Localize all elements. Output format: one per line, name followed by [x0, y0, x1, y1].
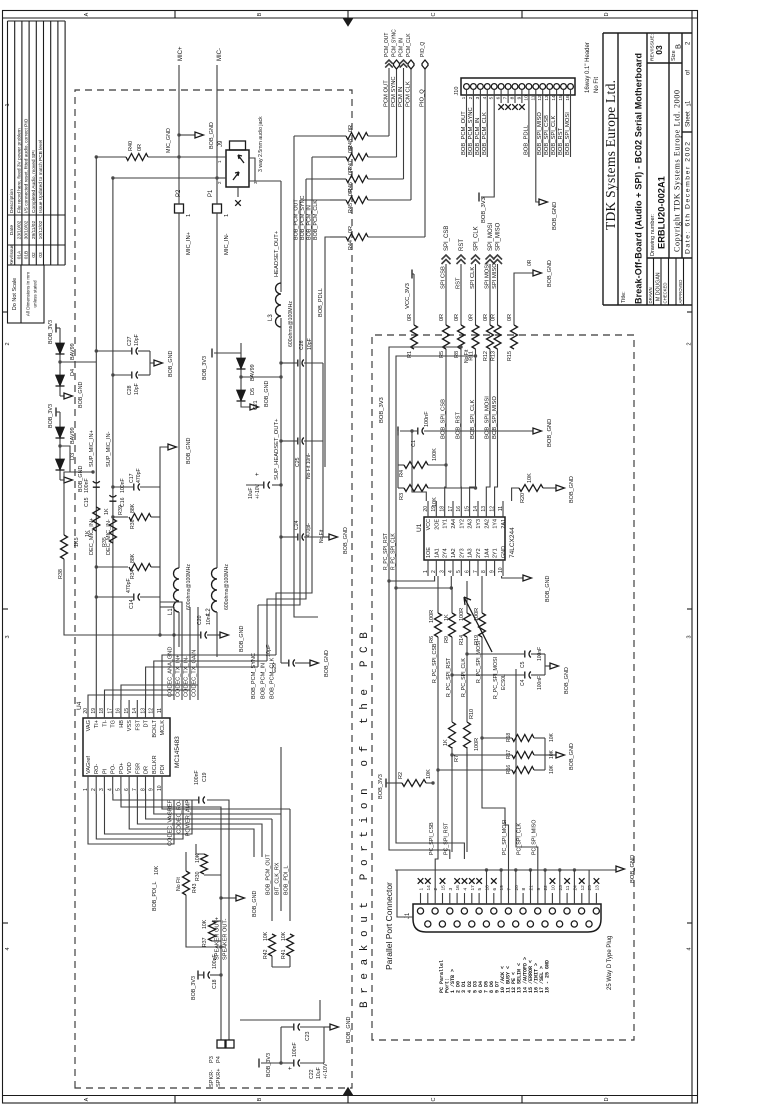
capacitor C21 10uF [279, 483, 282, 486]
resistor R12 0R [487, 325, 494, 349]
svg-text:13: 13 [140, 708, 146, 714]
off-page connector SPI_MOSI [489, 264, 491, 325]
svg-text:12: 12 [537, 95, 543, 101]
resistor R37 10K [212, 940, 221, 942]
svg-text:R41: R41 [281, 949, 287, 959]
diode D5 BAV99 [240, 343, 242, 401]
svg-text:P1: P1 [208, 189, 214, 197]
svg-text:BOB_PCM_IN: BOB_PCM_IN [475, 118, 481, 155]
svg-text:2A4: 2A4 [451, 519, 457, 529]
svg-text:BAV99: BAV99 [70, 343, 76, 360]
svg-text:BOB_GND: BOB_GND [569, 476, 575, 503]
svg-text:C22: C22 [309, 1069, 315, 1079]
resistor R15 0R [511, 325, 518, 349]
capacitor C18 100nF [197, 971, 199, 980]
svg-text:MCLK: MCLK [160, 720, 166, 736]
svg-text:8: 8 [521, 888, 527, 891]
svg-text:POWER_AMP: POWER_AMP [186, 800, 192, 837]
zone number ticks [3, 922, 9, 924]
C4 C5 rail [544, 654, 546, 675]
svg-text:PCM_IN: PCM_IN [399, 38, 405, 57]
J1 ground rail [395, 869, 616, 871]
svg-text:10: 10 [550, 885, 556, 891]
svg-text:J1: J1 [405, 912, 411, 919]
svg-text:8: 8 [510, 96, 516, 99]
svg-text:C27: C27 [127, 336, 133, 346]
codec right comb [88, 695, 174, 700]
svg-text:BAV99: BAV99 [250, 364, 256, 381]
svg-text:BOB_SPI_CSB: BOB_SPI_CSB [441, 399, 447, 439]
svg-text:17: 17 [107, 708, 113, 714]
svg-text:21: 21 [528, 885, 534, 891]
svg-text:PC_SPI_MISO: PC_SPI_MISO [532, 820, 538, 855]
svg-text:7: 7 [132, 788, 138, 791]
svg-text:2: 2 [687, 342, 693, 345]
svg-text:0R: 0R [348, 125, 354, 132]
svg-text:25: 25 [587, 885, 593, 891]
svg-text:100nF: 100nF [292, 1042, 298, 1057]
svg-text:100nF: 100nF [424, 411, 430, 427]
svg-text:BOB_PCM_CLK: BOB_PCM_CLK [313, 200, 319, 240]
label CODEC_TX_IN- [189, 607, 191, 700]
svg-text:R19: R19 [474, 635, 480, 645]
power BOB_3V3 at C1 [397, 427, 399, 436]
svg-text:DT: DT [144, 719, 150, 727]
svg-text:PIO_Q: PIO_Q [420, 89, 426, 107]
svg-text:BOB_GND: BOB_GND [552, 202, 558, 230]
wire net BOB_SPI_MISO [495, 349, 498, 501]
svg-text:2A3: 2A3 [468, 519, 474, 529]
svg-text:R18: R18 [506, 733, 512, 742]
svg-text:9: 9 [516, 96, 522, 99]
svg-text:J10: J10 [454, 87, 460, 96]
capacitor C15 100nF [93, 481, 100, 487]
svg-text:88K: 88K [130, 553, 136, 563]
capacitor C29 10pF [281, 662, 288, 664]
svg-text:PIO_Q: PIO_Q [420, 42, 426, 57]
svg-text:VCC_3V3: VCC_3V3 [405, 283, 411, 309]
svg-text:C: C [431, 1097, 437, 1101]
speaker wire PO+ [121, 794, 221, 1041]
svg-text:R44: R44 [348, 240, 354, 250]
resistor R43 10K No Fit [183, 871, 190, 895]
svg-text:1A3: 1A3 [468, 548, 474, 558]
svg-text:2: 2 [686, 41, 692, 45]
svg-text:RST: RST [456, 277, 462, 289]
svg-text:BOB_GND: BOB_GND [547, 419, 553, 447]
resistor R19 100R [479, 613, 486, 637]
svg-text:R42: R42 [263, 949, 269, 959]
VCC_3V3 power tap [413, 274, 415, 325]
svg-text:BOB_3V3: BOB_3V3 [266, 1053, 272, 1077]
svg-text:BOB_PDLL: BOB_PDLL [523, 124, 529, 155]
svg-text:15: 15 [464, 506, 470, 512]
svg-text:20: 20 [514, 885, 520, 891]
svg-text:10: 10 [157, 785, 163, 791]
svg-text:3: 3 [448, 888, 454, 891]
svg-text:PO+: PO+ [119, 763, 125, 774]
svg-text:0R: 0R [348, 189, 354, 196]
svg-text:BOB_GND: BOB_GND [569, 743, 575, 770]
svg-text:6: 6 [464, 570, 470, 573]
svg-text:R4: R4 [399, 470, 405, 477]
svg-text:VAGref: VAGref [86, 756, 92, 774]
svg-text:BOB_RST: BOB_RST [558, 127, 564, 155]
svg-text:BOB_PCM_CLK: BOB_PCM_CLK [270, 657, 276, 699]
svg-text:BOB_GND: BOB_GND [564, 667, 570, 694]
svg-text:10K: 10K [527, 473, 533, 483]
svg-text:RO-: RO- [94, 764, 100, 774]
svg-text:BIT_CLK_RX: BIT_CLK_RX [275, 862, 281, 895]
svg-text:11: 11 [498, 506, 504, 511]
svg-text:1: 1 [423, 570, 429, 573]
svg-text:6: 6 [496, 96, 502, 99]
resistor R42 10K [269, 934, 276, 956]
svg-text:1Y4: 1Y4 [493, 519, 499, 529]
svg-text:R_PC_SPI_RST: R_PC_SPI_RST [383, 533, 389, 570]
svg-text:SUP_HEADSET_OUT+: SUP_HEADSET_OUT+ [274, 418, 280, 480]
svg-text:R9: R9 [444, 636, 450, 643]
svg-text:15: 15 [558, 95, 564, 101]
svg-text:1Y1: 1Y1 [443, 519, 449, 529]
svg-text:100nF: 100nF [212, 954, 218, 969]
J10 pcm pin wires [466, 103, 468, 157]
svg-text:PCM CLK: PCM CLK [406, 81, 412, 107]
svg-text:PCM IN: PCM IN [398, 87, 404, 107]
label CODEC_RO- [96, 794, 183, 839]
codec pcm wires [146, 667, 258, 700]
resistor R8 0R [458, 325, 465, 349]
capacitor C1 100nF [400, 430, 417, 432]
svg-text:3: 3 [439, 570, 445, 573]
svg-text:BOB_SPI_MOSI: BOB_SPI_MOSI [485, 396, 491, 439]
svg-text:BOB_GND: BOB_GND [168, 351, 174, 377]
audio jack J9 [226, 150, 249, 187]
svg-text:3: 3 [687, 635, 693, 638]
svg-text:19: 19 [91, 708, 97, 714]
svg-text:TG: TG [111, 720, 117, 728]
svg-text:APPROVED: APPROVED [678, 280, 683, 304]
wire net R_PC_SPI_CSB [437, 637, 439, 852]
svg-text:11: 11 [157, 708, 163, 713]
label BOB_PCM_IN [266, 605, 268, 661]
svg-text:100nF: 100nF [120, 478, 126, 493]
diode D4 BAV99 [59, 328, 61, 396]
C22 C23 rails [280, 1027, 282, 1063]
svg-text:Copyright TDK Systems Europe L: Copyright TDK Systems Europe Ltd. 2000 [673, 90, 682, 252]
revision table grid [7, 21, 9, 265]
resistor R13 0R [494, 325, 501, 349]
resistor R5 0R [443, 325, 450, 349]
ground at codec mid [219, 896, 222, 899]
svg-text:+: + [255, 472, 261, 476]
svg-text:22: 22 [543, 885, 549, 891]
power BOB_3V3 at C22 [261, 1062, 281, 1064]
svg-text:8: 8 [481, 570, 487, 573]
svg-text:3: 3 [475, 96, 481, 99]
svg-text:2: 2 [431, 570, 437, 573]
svg-text:C18: C18 [212, 979, 218, 989]
svg-text:14: 14 [473, 506, 479, 512]
svg-text:C28: C28 [127, 385, 133, 395]
svg-text:ECS0L: ECS0L [501, 674, 507, 690]
svg-text:2: 2 [433, 888, 439, 891]
svg-text:R_PC_SPI_CSB: R_PC_SPI_CSB [432, 643, 438, 683]
off-page connector SPI_MISO [497, 264, 499, 325]
svg-text:74LCX244: 74LCX244 [509, 527, 516, 558]
resistor R48 0R [346, 133, 368, 140]
off-page connector PIO_Q [424, 68, 426, 237]
U1 gnd arrow [502, 576, 523, 578]
svg-text:U1: U1 [416, 523, 423, 532]
svg-text:BOB_GND: BOB_GND [264, 381, 270, 407]
capacitor C26 10pF [279, 361, 282, 364]
svg-text:BOB_GND: BOB_GND [630, 855, 636, 883]
op-amp U4 MC145483 codec [83, 718, 170, 776]
svg-text:R16: R16 [506, 765, 512, 774]
svg-text:R36: R36 [130, 519, 136, 529]
svg-text:BOB_3V3: BOB_3V3 [48, 404, 54, 428]
svg-text:100nF: 100nF [194, 770, 200, 785]
svg-text:10: 10 [523, 95, 529, 101]
svg-text:R_PC_SPI_MOSI: R_PC_SPI_MOSI [476, 641, 482, 683]
svg-text:SUP_MIC_IN+: SUP_MIC_IN+ [89, 430, 95, 467]
svg-text:BOB_3V3: BOB_3V3 [379, 397, 385, 423]
resistor R3 10K [398, 487, 404, 489]
J10 pin11 gnd wire [536, 103, 539, 202]
svg-text:A: A [84, 1097, 90, 1101]
do-not-scale box [8, 265, 45, 323]
svg-text:FST: FST [135, 719, 141, 730]
svg-text:9: 9 [489, 570, 495, 573]
svg-text:BOB_PCM_SYNC: BOB_PCM_SYNC [468, 107, 474, 155]
svg-text:BCLKR: BCLKR [152, 755, 158, 774]
wire net BOB_SPI_CLK [470, 349, 476, 501]
resistor R34 88K [95, 565, 98, 568]
capacitor C28 10pF [111, 373, 114, 376]
svg-text:BOB_GND: BOB_GND [343, 527, 349, 554]
svg-text:of: of [686, 70, 692, 75]
svg-text:R20: R20 [520, 493, 526, 503]
svg-text:13: 13 [544, 95, 550, 101]
svg-text:C4: C4 [520, 679, 526, 686]
svg-text:BOB_PCM_OUT: BOB_PCM_OUT [461, 111, 467, 155]
svg-text:0R: 0R [469, 314, 475, 321]
svg-text:600ohms@100MHz: 600ohms@100MHz [288, 301, 294, 347]
svg-text:30/10/02: 30/10/02 [24, 220, 30, 239]
svg-text:1: 1 [224, 214, 230, 217]
svg-text:14: 14 [551, 95, 557, 101]
svg-text:2Y3: 2Y3 [459, 548, 465, 558]
resistor R7 1K [451, 752, 453, 767]
svg-text:2Y4: 2Y4 [443, 548, 449, 558]
connector P4 [226, 1040, 234, 1048]
svg-text:0R: 0R [407, 314, 413, 321]
svg-text:13: 13 [594, 885, 600, 891]
label POWER_AMP [105, 794, 193, 834]
svg-text:23: 23 [558, 885, 564, 891]
svg-text:100R: 100R [429, 610, 435, 623]
svg-text:BOB_SPI_CLK: BOB_SPI_CLK [551, 116, 557, 155]
svg-text:PCM OUT: PCM OUT [384, 80, 390, 107]
svg-text:BOB_PCM_OUT: BOB_PCM_OUT [266, 854, 272, 895]
svg-text:01A: 01A [16, 250, 22, 259]
speaker return loop [240, 1000, 320, 1020]
svg-text:BOB_PCM_OUT: BOB_PCM_OUT [294, 199, 300, 240]
svg-text:0R: 0R [348, 168, 354, 175]
J1 signal pin wires [435, 849, 438, 893]
svg-text:7: 7 [503, 96, 509, 99]
svg-text:VCC: VCC [426, 519, 432, 530]
mic cap gnd [149, 351, 151, 375]
svg-text:1: 1 [83, 788, 89, 791]
svg-text:100K: 100K [432, 448, 438, 461]
svg-text:17: 17 [448, 506, 454, 512]
svg-text:10pF: 10pF [134, 383, 140, 395]
svg-text:600ohms@100MHz: 600ohms@100MHz [224, 564, 230, 610]
svg-text:FSR: FSR [135, 763, 141, 774]
svg-text:470pF: 470pF [306, 523, 312, 537]
svg-text:10K: 10K [263, 931, 269, 941]
svg-text:0R: 0R [483, 314, 489, 321]
svg-text:9: 9 [149, 788, 155, 791]
svg-text:SPEAKER OUT-: SPEAKER OUT- [223, 919, 229, 960]
resistor R2 10K [385, 779, 387, 788]
svg-text:SPI MISO: SPI MISO [492, 263, 498, 289]
svg-text:BAV99: BAV99 [70, 427, 76, 444]
capacitor C24 470pF [279, 535, 282, 538]
svg-text:12: 12 [489, 506, 495, 512]
svg-text:VSS: VSS [127, 720, 133, 731]
svg-text:BCKLT: BCKLT [152, 719, 158, 737]
svg-text:BOB_GND: BOB_GND [545, 576, 551, 602]
svg-text:PDI: PDI [160, 764, 166, 774]
svg-text:100R: 100R [459, 608, 465, 621]
svg-text:100nF: 100nF [84, 478, 90, 493]
connector P1 [213, 204, 222, 213]
svg-text:MIC_IN+: MIC_IN+ [186, 231, 192, 255]
svg-text:Drawing number:: Drawing number: [650, 214, 656, 256]
rst loop wire [389, 347, 461, 859]
svg-text:10K: 10K [281, 931, 287, 941]
svg-text:600ohms@100MHz: 600ohms@100MHz [186, 564, 192, 610]
svg-text:C5: C5 [520, 661, 526, 668]
svg-text:U4: U4 [76, 701, 83, 710]
svg-text:SPI_CSB: SPI_CSB [444, 226, 450, 251]
svg-text:SPI MOSI: SPI MOSI [485, 263, 491, 289]
svg-text:16: 16 [565, 95, 571, 101]
svg-text:MIC-: MIC- [217, 48, 223, 61]
svg-text:1OE: 1OE [426, 547, 432, 558]
svg-text:PC_SPI_CLK: PC_SPI_CLK [517, 822, 523, 855]
wire net R_PC_SPI_RST [451, 747, 453, 852]
svg-text:10nF: 10nF [206, 613, 212, 625]
svg-text:16: 16 [116, 708, 122, 714]
svg-text:5: 5 [489, 96, 495, 99]
svg-text:2: 2 [5, 342, 11, 345]
svg-text:02: 02 [31, 252, 37, 258]
svg-text:DRAWN: DRAWN [648, 287, 653, 303]
svg-text:VDD: VDD [127, 762, 133, 774]
capacitor C19 100nF [199, 797, 205, 804]
svg-text:1: 1 [419, 888, 425, 891]
svg-text:0R: 0R [454, 314, 460, 321]
svg-text:DR: DR [144, 766, 150, 774]
svg-text:470pF: 470pF [136, 468, 142, 483]
svg-text:4: 4 [448, 570, 454, 573]
resistor R39 1K series [109, 519, 116, 543]
resistor R14 100R [466, 637, 468, 700]
svg-text:BOB_SPI_MISO: BOB_SPI_MISO [537, 112, 543, 155]
svg-text:BOB_PDLL: BOB_PDLL [318, 288, 324, 317]
svg-text:8: 8 [140, 788, 146, 791]
svg-text:0R: 0R [439, 314, 445, 321]
svg-text:I/S connected reset, fitted au: I/S connected reset, fitted audio, corre… [24, 118, 30, 213]
svg-text:D: D [604, 1097, 610, 1101]
svg-text:100nF: 100nF [537, 676, 543, 690]
svg-text:Description: Description [9, 189, 15, 213]
svg-text:VAG: VAG [86, 720, 92, 731]
inductor L2 [212, 568, 217, 612]
label BOB_PCM_CLK [275, 605, 277, 655]
svg-text:BOB_GND: BOB_GND [547, 260, 553, 287]
svg-text:16: 16 [455, 885, 461, 891]
svg-text:Do Not Scale: Do Not Scale [12, 278, 18, 310]
svg-text:2A2: 2A2 [484, 519, 490, 529]
svg-text:4: 4 [107, 788, 113, 791]
svg-text:Sheet: Sheet [686, 111, 692, 127]
svg-text:10: 10 [498, 567, 504, 573]
svg-text:Size: Size [671, 50, 677, 61]
connector J1 25-way D-type [413, 904, 601, 932]
svg-text:10uF: 10uF [316, 1067, 322, 1079]
svg-text:13: 13 [481, 506, 487, 512]
svg-text:R2: R2 [398, 772, 404, 779]
svg-text:BOB_RST: BOB_RST [456, 411, 462, 439]
svg-text:7: 7 [473, 570, 479, 573]
svg-text:10K: 10K [549, 732, 555, 742]
capacitor C16 100nF [109, 495, 116, 501]
svg-text:PCM SYNC: PCM SYNC [391, 76, 397, 107]
connector P2 [175, 204, 184, 213]
J10 spi pin wires [528, 103, 530, 157]
svg-text:M DOUGAN: M DOUGAN [656, 272, 662, 301]
svg-text:BOB_PDI_L: BOB_PDI_L [284, 866, 290, 895]
svg-text:TDK Systems Europe Ltd.: TDK Systems Europe Ltd. [603, 80, 618, 230]
J9 unused pin [237, 187, 239, 197]
svg-text:L1: L1 [168, 608, 174, 615]
svg-text:D5: D5 [250, 388, 256, 395]
svg-text:1: 1 [686, 100, 692, 104]
svg-text:2Y2: 2Y2 [476, 548, 482, 558]
capacitor C5 100nF [465, 652, 468, 655]
svg-text:0R: 0R [348, 146, 354, 153]
svg-text:4: 4 [687, 947, 693, 950]
svg-text:10/12/02: 10/12/02 [38, 220, 44, 239]
label BOB_PCM_OUT codec [271, 819, 273, 921]
wire HEADSET_OUT+ [280, 181, 282, 292]
svg-text:SPI_CLK: SPI_CLK [474, 226, 480, 251]
svg-text:2: 2 [468, 96, 474, 99]
svg-text:2Y1: 2Y1 [493, 548, 499, 558]
svg-text:14: 14 [426, 885, 432, 891]
svg-text:1: 1 [217, 160, 222, 163]
svg-text:R15: R15 [507, 351, 513, 361]
svg-text:25 Way D Type Plug: 25 Way D Type Plug [607, 936, 613, 990]
svg-text:20: 20 [83, 708, 89, 714]
svg-text:SPI_MISO: SPI_MISO [496, 222, 502, 251]
label CODEC_ANA_GND [173, 607, 175, 700]
